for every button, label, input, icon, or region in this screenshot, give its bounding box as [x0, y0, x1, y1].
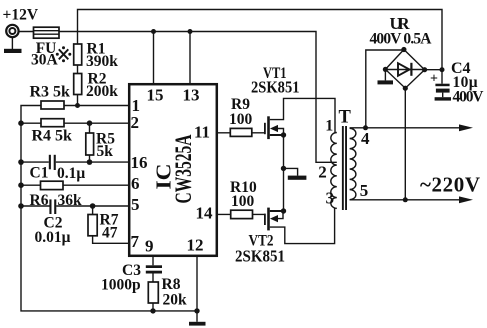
svg-text:20k: 20k [163, 292, 188, 309]
svg-text:36k: 36k [58, 192, 83, 209]
svg-text:R3 5k: R3 5k [30, 83, 71, 100]
svg-text:15: 15 [147, 86, 164, 105]
svg-text:2: 2 [131, 113, 140, 132]
svg-text:1: 1 [325, 118, 333, 135]
svg-text:2SK851: 2SK851 [251, 78, 300, 97]
svg-text:200k: 200k [86, 83, 118, 100]
svg-text:5k: 5k [97, 143, 114, 160]
svg-text:9: 9 [145, 237, 154, 256]
svg-text:14: 14 [196, 204, 214, 223]
svg-text:5: 5 [131, 195, 140, 214]
svg-text:+: + [430, 72, 438, 87]
svg-text:+12V: +12V [3, 7, 39, 24]
svg-text:T: T [339, 107, 352, 127]
svg-text:100: 100 [231, 193, 255, 210]
svg-text:400V: 400V [453, 89, 485, 106]
svg-text:47: 47 [102, 224, 118, 241]
svg-text:13: 13 [183, 86, 200, 105]
svg-text:3: 3 [326, 188, 335, 207]
svg-text:7: 7 [131, 232, 140, 251]
svg-text:R6: R6 [30, 192, 49, 209]
svg-text:R4 5k: R4 5k [32, 128, 73, 145]
svg-text:CW3525A: CW3525A [171, 134, 196, 203]
svg-text:C1: C1 [30, 165, 49, 182]
svg-text:12: 12 [187, 235, 204, 254]
svg-text:2: 2 [318, 163, 327, 182]
svg-text:1: 1 [132, 96, 141, 115]
svg-text:30A: 30A [31, 51, 59, 68]
svg-text:2SK851: 2SK851 [235, 247, 285, 266]
svg-text:~220V: ~220V [420, 172, 480, 196]
svg-text:1000p: 1000p [101, 276, 141, 293]
svg-text:6: 6 [131, 174, 140, 193]
svg-text:11: 11 [194, 123, 210, 142]
svg-text:4: 4 [361, 129, 370, 148]
svg-text:100: 100 [229, 111, 253, 128]
svg-text:0.1μ: 0.1μ [57, 165, 85, 182]
svg-text:390k: 390k [86, 53, 118, 70]
svg-text:R8: R8 [162, 276, 181, 293]
svg-text:400V 0.5A: 400V 0.5A [370, 31, 433, 48]
svg-text:16: 16 [131, 153, 148, 172]
svg-text:5: 5 [360, 181, 369, 200]
svg-text:0.01μ: 0.01μ [35, 229, 71, 246]
